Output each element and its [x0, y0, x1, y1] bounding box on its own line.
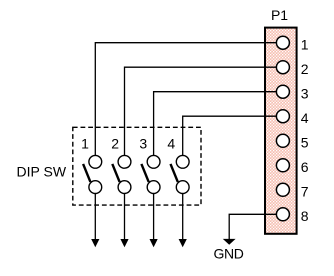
svg-text:5: 5	[301, 135, 309, 151]
svg-text:1: 1	[301, 37, 309, 53]
wire pin1 to switch SW1	[95, 43, 276, 156]
DIP switch package outline	[73, 127, 201, 205]
wire switch SW1 output	[94, 194, 96, 240]
pin 1 pad	[276, 36, 289, 49]
svg-text:4: 4	[167, 136, 175, 152]
wire pin8 to GND	[229, 214, 276, 239]
svg-text:2: 2	[301, 61, 309, 77]
arrow switch SW2 output	[120, 239, 128, 247]
svg-text:DIP SW: DIP SW	[17, 164, 67, 180]
wire pin3 to switch SW3	[154, 92, 277, 156]
switch SW4	[171, 155, 190, 193]
ground arrow	[223, 239, 236, 245]
svg-text:6: 6	[301, 159, 309, 175]
svg-text:3: 3	[139, 136, 147, 152]
wire switch SW4 output	[182, 194, 184, 240]
wire switch SW3 output	[153, 194, 155, 240]
switch SW2	[112, 155, 131, 193]
wire switch SW2 output	[124, 194, 126, 240]
wire pin4 to switch SW4	[183, 116, 277, 155]
switch SW3	[141, 155, 160, 193]
svg-text:7: 7	[301, 184, 309, 200]
arrow switch SW1 output	[91, 239, 99, 247]
svg-text:8: 8	[301, 208, 309, 224]
pin 4 pad	[276, 110, 289, 123]
pin 6 pad	[276, 159, 289, 172]
pin 7 pad	[276, 183, 289, 196]
pin 8 pad	[276, 208, 289, 221]
switch SW1	[83, 155, 102, 193]
connector P1 body	[265, 28, 297, 234]
arrow switch SW3 output	[150, 239, 158, 247]
pin 5 pad	[276, 134, 289, 147]
svg-text:2: 2	[111, 136, 119, 152]
svg-text:3: 3	[301, 86, 309, 102]
svg-text:GND: GND	[214, 246, 244, 262]
pin 3 pad	[276, 85, 289, 98]
wire pin2 to switch SW2	[125, 67, 277, 155]
svg-text:1: 1	[81, 136, 89, 152]
svg-text:P1: P1	[271, 7, 288, 23]
arrow switch SW4 output	[179, 239, 187, 247]
svg-text:4: 4	[301, 110, 309, 126]
pin 2 pad	[276, 61, 289, 74]
